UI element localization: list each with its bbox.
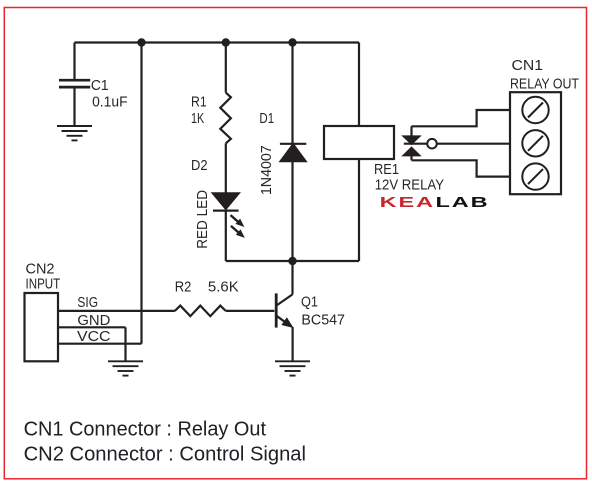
wire: R1 to D2 [225,143,227,193]
LED light arrow 1 [231,215,244,226]
relay contact: lower stub [410,155,412,160]
junction node: D1 branch top [288,38,296,46]
svg-text:CN1: CN1 [512,58,544,74]
ground (CN2 GND) [108,361,143,375]
wire: rail down to relay coil [358,43,360,127]
resistor R1 (1K, vertical zigzag) [220,93,231,144]
wire: relay coil to bottom rail [358,159,360,261]
svg-text:KEA: KEA [380,194,435,210]
wire: emitter down to ground [292,327,294,361]
svg-text:SIG: SIG [77,295,98,311]
logo KEALAB [380,194,490,210]
svg-text:D1: D1 [259,111,274,127]
svg-text:INPUT: INPUT [26,277,61,293]
diode D1 triangle [281,144,306,161]
ground (C1) [57,126,92,140]
svg-text:LAB: LAB [435,194,489,210]
wire: Q1 base from R2 [226,310,275,312]
junction node: R1 branch [222,38,230,46]
svg-text:CN1 Connector : Relay Out: CN1 Connector : Relay Out [24,419,267,441]
wire: C1 stem to top plate [73,43,75,80]
relay RE1 coil box [324,126,394,159]
wire: D2 cathode down to bottom rail [225,211,227,261]
relay contact: upper stub [410,126,412,136]
resistor R2 (5.6K, horizontal zigzag) [175,306,226,317]
svg-text:GND: GND [77,313,110,329]
transistor Q1 base bar [275,293,278,327]
relay contact lower triangle [404,148,419,155]
LED D2 triangle [213,193,239,208]
wire: rail to R1 [225,43,227,93]
transistor Q1 collector diagonal [277,294,293,305]
LED D2 cathode bar [213,210,239,212]
relay contact pivot circle [427,139,437,149]
svg-text:RELAY OUT: RELAY OUT [510,77,579,93]
wire: collector up to junction [291,261,293,294]
wire: NO contact to CN1 pin3 [412,160,511,176]
capacitor C1 [59,80,90,87]
svg-text:5.6K: 5.6K [208,279,239,295]
svg-text:BC547: BC547 [301,313,345,329]
connector CN2 box [25,293,59,361]
svg-text:RE1: RE1 [374,162,399,178]
wire: GND stem down (crosses VCC) [124,327,126,361]
svg-text:CN2: CN2 [26,261,55,277]
relay contact upper triangle [404,137,419,144]
svg-text:0.1uF: 0.1uF [92,94,128,110]
junction node: collector junction [288,257,296,265]
wire: GND from CN2 [58,326,126,328]
svg-text:D2: D2 [191,158,208,174]
ground (Q1) [275,361,310,375]
CN1 screw terminal 3 [522,163,548,189]
wire: bottom rail (LED to relay) [226,260,359,262]
svg-text:12V RELAY: 12V RELAY [375,178,445,194]
relay contact common line [404,143,510,145]
svg-text:1K: 1K [191,111,205,127]
svg-text:VCC: VCC [77,329,111,345]
wire: VCC drop to CN2 (crosses SIG) [140,43,142,344]
junction node: VCC drop [137,38,145,46]
wire: D1 branch vertical [291,43,293,262]
svg-text:RED LED: RED LED [195,190,211,249]
CN1 screw terminal 1 [522,97,548,123]
wire: VCC top rail [75,41,360,43]
transistor Q1 emitter diagonal with arrow [277,316,287,323]
connector CN1 box [510,92,561,194]
CN1 screw terminal 2 [522,130,548,156]
svg-text:R1: R1 [191,95,207,111]
svg-text:Q1: Q1 [301,295,318,311]
wire: NC contact to CN1 pin1 [412,110,511,126]
svg-text:R2: R2 [175,279,192,295]
wire: SIG from CN2 to R2 [58,310,175,312]
wire: C1 bottom plate to ground [73,88,75,126]
svg-text:C1: C1 [91,78,109,94]
svg-text:CN2 Connector : Control Signal: CN2 Connector : Control Signal [24,444,306,466]
wire: VCC from CN2 [58,343,142,345]
svg-text:1N4007: 1N4007 [259,145,275,195]
LED light arrow 2 [231,226,244,237]
diode D1 cathode bar [280,143,306,145]
